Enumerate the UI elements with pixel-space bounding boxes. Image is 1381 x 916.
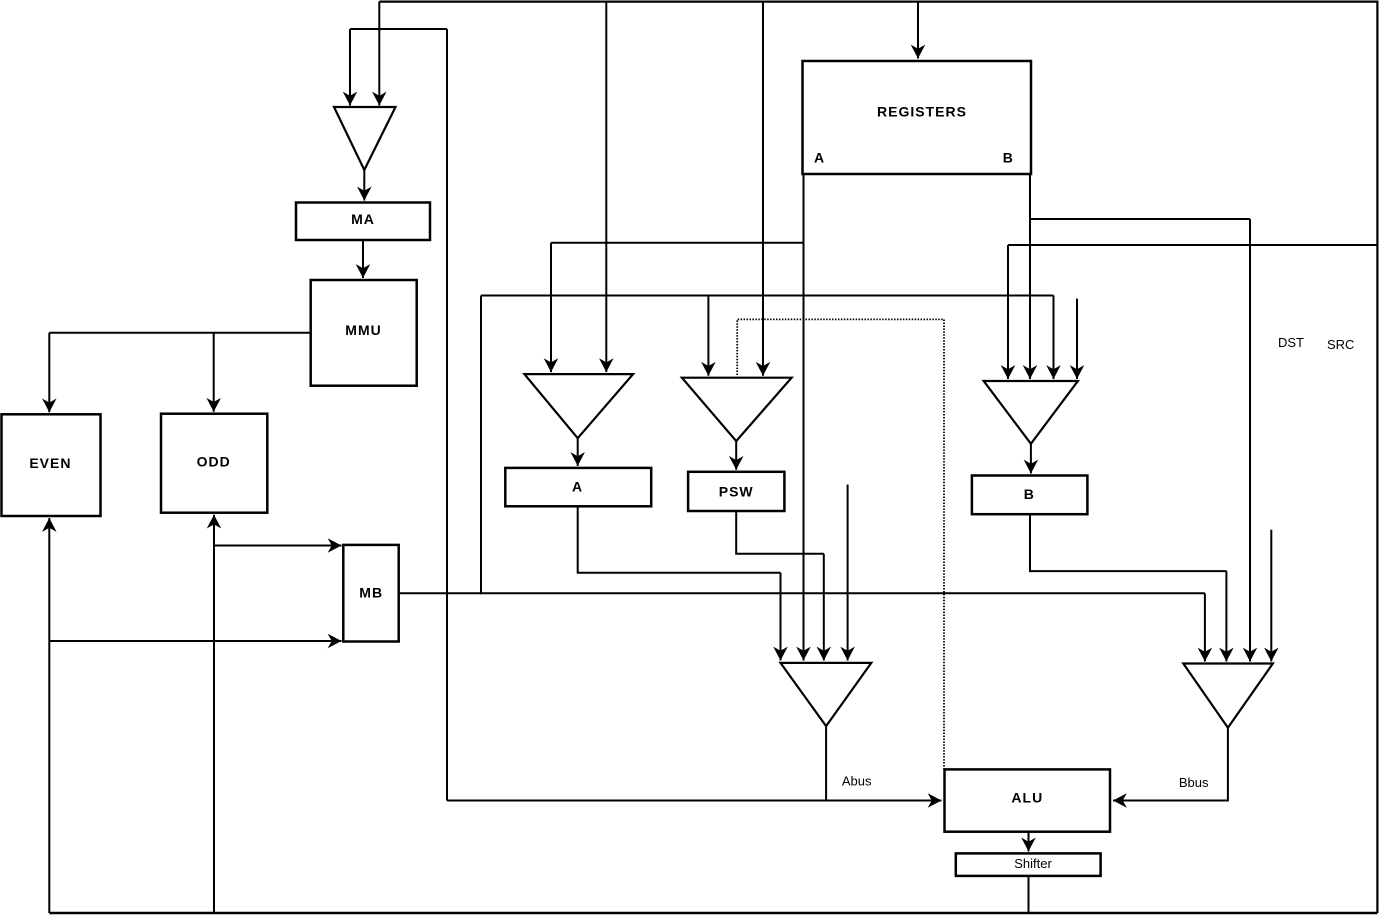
- svg-text:B: B: [1024, 486, 1035, 502]
- svg-text:Shifter: Shifter: [1014, 856, 1052, 871]
- svg-text:PSW: PSW: [719, 483, 754, 499]
- svg-text:ODD: ODD: [197, 453, 231, 469]
- svg-text:EVEN: EVEN: [29, 455, 71, 471]
- svg-text:MMU: MMU: [345, 322, 381, 338]
- svg-text:ALU: ALU: [1011, 790, 1043, 806]
- svg-text:Bbus: Bbus: [1179, 775, 1209, 790]
- svg-text:Abus: Abus: [842, 774, 872, 789]
- svg-text:B: B: [1003, 150, 1014, 166]
- svg-text:A: A: [814, 150, 825, 166]
- svg-text:DST: DST: [1278, 335, 1304, 350]
- svg-text:SRC: SRC: [1327, 337, 1354, 352]
- svg-text:MB: MB: [359, 584, 383, 600]
- svg-text:A: A: [572, 478, 583, 494]
- svg-text:MA: MA: [351, 211, 375, 227]
- svg-text:REGISTERS: REGISTERS: [877, 104, 967, 120]
